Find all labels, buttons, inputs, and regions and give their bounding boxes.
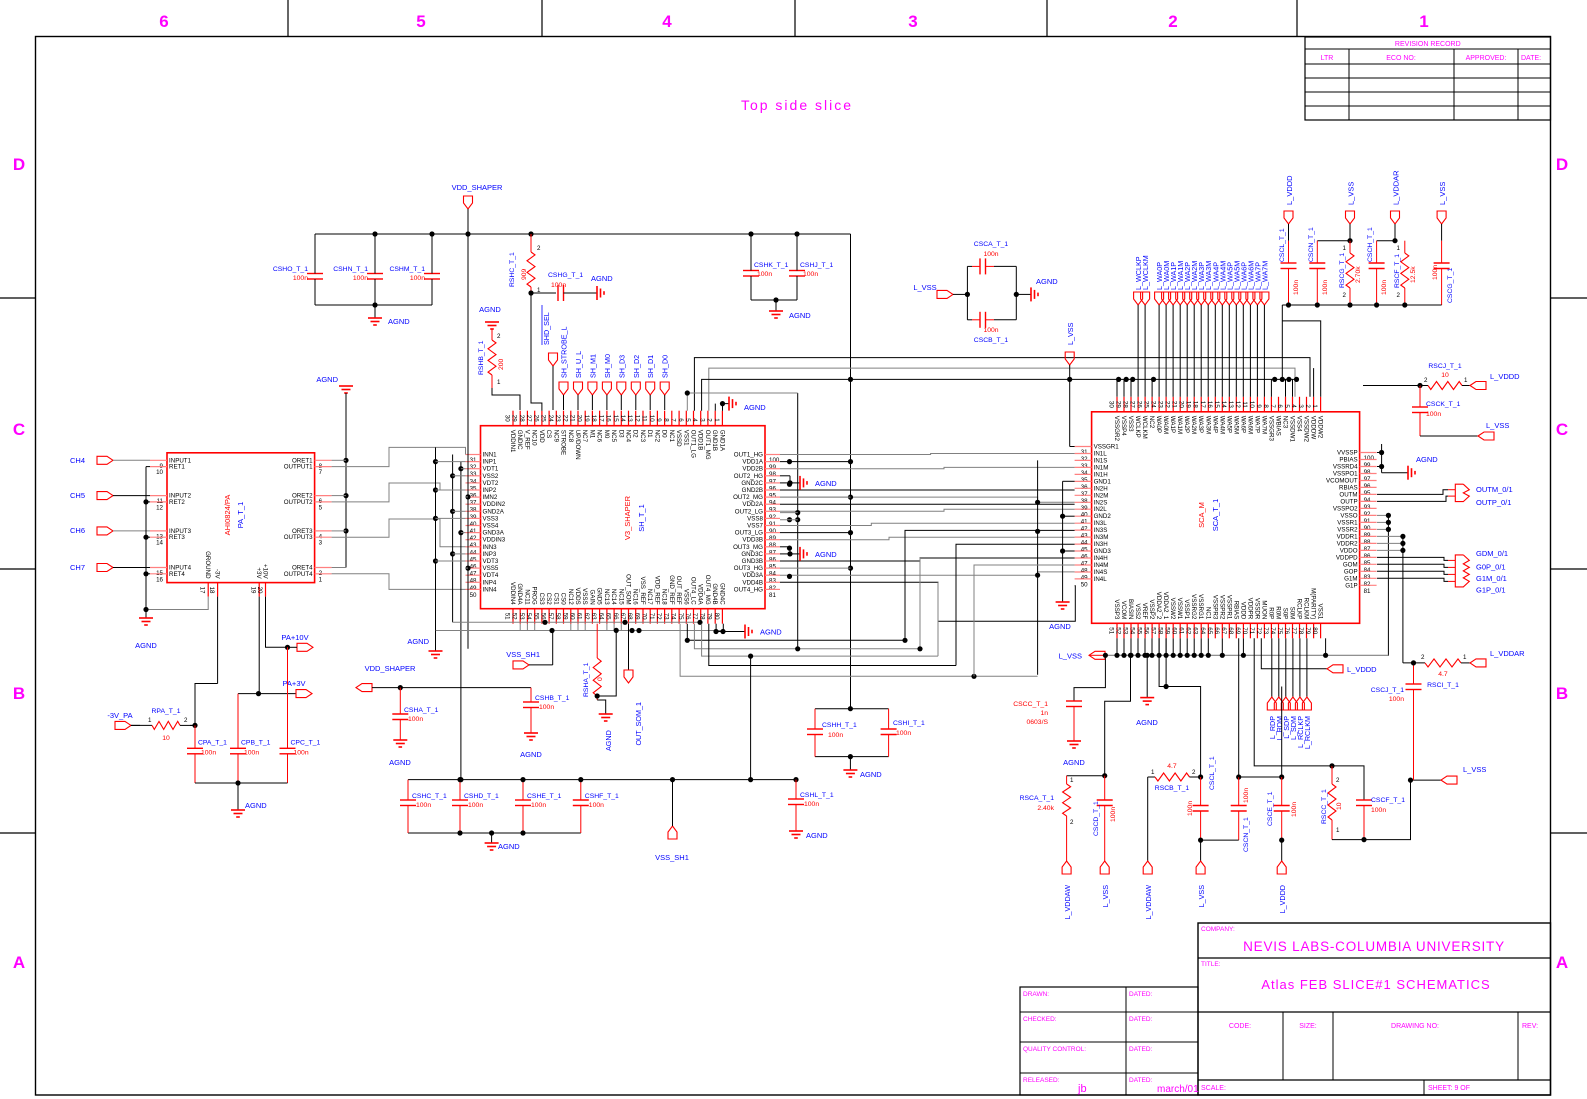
svg-text:CSHH_T_1: CSHH_T_1 bbox=[822, 722, 857, 729]
svg-text:SH_D3: SH_D3 bbox=[617, 355, 626, 378]
svg-text:26: 26 bbox=[532, 415, 539, 422]
wire ORET2 bbox=[332, 495, 346, 497]
svg-text:80: 80 bbox=[713, 613, 720, 620]
svg-text:OUTP: OUTP bbox=[1340, 498, 1357, 505]
svg-text:CSCF_T_1: CSCF_T_1 bbox=[1371, 797, 1405, 804]
svg-text:93: 93 bbox=[1364, 504, 1371, 511]
svg-text:NC1: NC1 bbox=[668, 430, 675, 443]
pin 47 VSS5 bbox=[466, 567, 481, 569]
svg-text:26: 26 bbox=[1136, 401, 1143, 408]
svg-text:VDD1A: VDD1A bbox=[742, 459, 764, 466]
pin 94 OUT2_MG bbox=[765, 496, 780, 498]
node junctions on top rail bbox=[372, 231, 377, 236]
svg-text:3: 3 bbox=[1297, 404, 1304, 408]
svg-text:100n: 100n bbox=[410, 275, 425, 282]
svg-text:94: 94 bbox=[769, 500, 776, 507]
wire pins 30 29 28 risers bbox=[1116, 379, 1118, 396]
svg-text:31: 31 bbox=[470, 457, 477, 464]
svg-text:REVISION RECORD: REVISION RECORD bbox=[1395, 41, 1461, 48]
svg-text:SHD_SEL: SHD_SEL bbox=[542, 312, 551, 345]
svg-text:NC9: NC9 bbox=[552, 430, 559, 443]
svg-text:85: 85 bbox=[769, 564, 776, 571]
pin 100 OUT1_HG bbox=[765, 454, 780, 456]
svg-text:GOP: GOP bbox=[1344, 568, 1358, 575]
pin 19 M1 bbox=[591, 411, 593, 426]
wire bus risers from below bbox=[905, 530, 1075, 640]
svg-text:L_VSS: L_VSS bbox=[1347, 182, 1356, 205]
svg-text:78: 78 bbox=[1297, 627, 1304, 634]
svg-text:100n: 100n bbox=[201, 750, 216, 757]
svg-text:SH_D2: SH_D2 bbox=[632, 355, 641, 378]
ground AGND shaper top right bbox=[723, 404, 730, 411]
svg-text:VSS5: VSS5 bbox=[483, 565, 499, 572]
pin 34 VSS2 bbox=[466, 475, 481, 477]
wire cap bottom rail bbox=[195, 782, 288, 784]
pin 44 IN3M bbox=[1075, 536, 1092, 538]
pin 16 NC5 bbox=[613, 411, 615, 426]
svg-text:Atlas FEB SLICE#1 SCHEMATICS: Atlas FEB SLICE#1 SCHEMATICS bbox=[1261, 977, 1490, 992]
resistor RSHB_T_1 200 bbox=[491, 329, 493, 340]
ground AGND PA bbox=[145, 610, 147, 619]
svg-text:jb: jb bbox=[1077, 1083, 1087, 1095]
svg-text:VSS8: VSS8 bbox=[747, 515, 763, 522]
svg-text:100n: 100n bbox=[1291, 802, 1298, 817]
wire shaper bottom rails bbox=[436, 630, 724, 632]
pin 31 INN1 bbox=[466, 454, 481, 456]
svg-text:2: 2 bbox=[1397, 292, 1401, 299]
svg-text:89: 89 bbox=[1364, 532, 1371, 539]
pin 25 NC2 bbox=[1151, 397, 1153, 412]
pin 1 OUTPUT4 bbox=[315, 573, 332, 575]
svg-text:VREF: VREF bbox=[1141, 603, 1148, 620]
resistor RSCC_T_1 10 bbox=[1331, 766, 1333, 784]
pin 29 GNDIC bbox=[519, 411, 521, 426]
svg-text:1: 1 bbox=[1464, 377, 1468, 384]
pin 94 OUTM bbox=[1360, 493, 1377, 495]
svg-text:-3V_PA: -3V_PA bbox=[107, 711, 132, 720]
svg-text:GND5: GND5 bbox=[596, 587, 603, 605]
svg-text:100n: 100n bbox=[1293, 280, 1300, 295]
wire input pin stubs to verticals bbox=[436, 461, 466, 463]
port L_VSS 1 bbox=[1100, 861, 1109, 874]
port L_VSS right lower bbox=[1411, 779, 1442, 781]
svg-text:3: 3 bbox=[319, 540, 323, 547]
svg-text:IN3S: IN3S bbox=[1094, 527, 1108, 534]
pin 37 IMN2 bbox=[466, 496, 481, 498]
svg-text:NC4: NC4 bbox=[625, 430, 632, 443]
wire pin20 +10V bbox=[266, 597, 288, 648]
svg-text:CPB_T_1: CPB_T_1 bbox=[241, 740, 271, 747]
pin 46 GND3 bbox=[1075, 550, 1092, 552]
pin 10 RET1 bbox=[150, 466, 167, 468]
pin 55 VREF bbox=[1144, 623, 1146, 638]
svg-text:GNDIC: GNDIC bbox=[516, 430, 523, 450]
wire cap bottom rail bbox=[315, 304, 432, 306]
pin 11 INPUT2 bbox=[150, 495, 167, 497]
wire bus 82 bbox=[780, 582, 1075, 621]
svg-text:RSCJ_T_1: RSCJ_T_1 bbox=[1428, 363, 1461, 370]
pin 71 VSSDR bbox=[1256, 623, 1258, 638]
wire RET stubs bbox=[146, 466, 150, 468]
pin 86 VDDO bbox=[1360, 549, 1377, 551]
svg-text:VDD3A: VDD3A bbox=[742, 572, 764, 579]
svg-text:VDDR2: VDDR2 bbox=[1337, 540, 1359, 547]
capacitor CSCF_T_1 bbox=[1332, 766, 1364, 800]
svg-text:SH_D1: SH_D1 bbox=[646, 355, 655, 378]
svg-text:AGND: AGND bbox=[388, 317, 410, 326]
pin 28 V_REF bbox=[526, 411, 528, 426]
svg-text:RSCF_T_1: RSCF_T_1 bbox=[1394, 254, 1401, 288]
svg-text:97: 97 bbox=[1364, 476, 1371, 483]
pin 73 R0P bbox=[1270, 623, 1272, 638]
port VSS_SH1 lower bbox=[668, 826, 677, 839]
svg-text:GND1A: GND1A bbox=[718, 430, 725, 452]
pin 10 NC2 bbox=[656, 411, 658, 426]
pin 88 VDDR1 bbox=[1360, 535, 1377, 537]
svg-text:100n: 100n bbox=[1243, 788, 1250, 803]
svg-text:100n: 100n bbox=[1322, 280, 1329, 295]
ground AGND RSHA bbox=[597, 700, 606, 714]
capacitor CSCJ_T_1 bbox=[1413, 663, 1415, 684]
svg-text:61: 61 bbox=[576, 613, 583, 620]
wire OUTPUT1 to INN1 bbox=[332, 447, 466, 466]
wire bus 94 bbox=[780, 497, 1075, 502]
svg-text:PBIAS: PBIAS bbox=[1339, 457, 1357, 464]
wire bus 92b bbox=[780, 509, 1075, 511]
svg-text:AGND: AGND bbox=[245, 801, 267, 810]
ground AGND CSHG bbox=[596, 286, 598, 300]
svg-text:VSSGR3: VSSGR3 bbox=[1267, 416, 1274, 442]
svg-text:84: 84 bbox=[769, 571, 776, 578]
pin 15 INPUT4 bbox=[150, 567, 167, 569]
resistor RSHC_T_1 909 bbox=[527, 252, 535, 287]
svg-text:OUT1_HG: OUT1_HG bbox=[734, 452, 763, 459]
capacitor row CSHC CSHD CSHE CSHF bbox=[408, 779, 796, 781]
svg-text:79: 79 bbox=[706, 613, 713, 620]
capacitor CSHH_T_1 bbox=[814, 709, 816, 729]
ground AGND CSCC bbox=[1067, 740, 1081, 742]
capacitor CSHO_T_1 bbox=[307, 273, 323, 275]
pin 23 STROBE bbox=[563, 411, 565, 426]
pin 13 WA5M bbox=[1235, 397, 1237, 412]
svg-text:VSSD: VSSD bbox=[675, 430, 682, 447]
svg-text:VDDS: VDDS bbox=[574, 587, 581, 604]
svg-text:73: 73 bbox=[662, 613, 669, 620]
wire G1P bbox=[1377, 578, 1448, 581]
svg-text:52: 52 bbox=[1115, 627, 1122, 634]
wire bus 90 bbox=[780, 523, 1075, 525]
svg-text:16: 16 bbox=[1206, 401, 1213, 408]
svg-text:VSS2: VSS2 bbox=[483, 473, 499, 480]
approvals table bbox=[1020, 987, 1198, 1095]
wire CSHK CSHJ bottom rail bbox=[751, 299, 797, 301]
svg-text:IN2L: IN2L bbox=[1094, 506, 1108, 513]
svg-text:SIZE:: SIZE: bbox=[1299, 1023, 1317, 1030]
svg-text:NC6: NC6 bbox=[596, 430, 603, 443]
svg-text:55: 55 bbox=[1136, 627, 1143, 634]
svg-text:46: 46 bbox=[470, 564, 477, 571]
pin 50 IN4L bbox=[1075, 578, 1092, 580]
pin 82 G1M bbox=[1360, 577, 1377, 579]
capacitor CSCL_T_1 top bbox=[1288, 241, 1290, 263]
svg-text:2.70k: 2.70k bbox=[1355, 266, 1362, 283]
svg-text:100n: 100n bbox=[1371, 807, 1386, 814]
svg-text:2: 2 bbox=[1343, 292, 1347, 299]
svg-text:54: 54 bbox=[1129, 627, 1136, 634]
svg-text:CODE:: CODE: bbox=[1229, 1023, 1251, 1030]
pin 92 VSSPO2 bbox=[1360, 507, 1377, 509]
revision record table bbox=[1305, 37, 1551, 120]
resistor RSCJ_T_1 10 bbox=[1417, 383, 1422, 388]
svg-text:33: 33 bbox=[470, 471, 477, 478]
svg-text:14: 14 bbox=[1220, 401, 1227, 408]
svg-text:SH_U_L: SH_U_L bbox=[574, 351, 583, 378]
svg-text:75: 75 bbox=[1276, 627, 1283, 634]
pin 20 WA2P bbox=[1186, 397, 1188, 412]
svg-text:RSHB_T_1: RSHB_T_1 bbox=[478, 340, 485, 375]
svg-text:WA1P: WA1P bbox=[1169, 416, 1176, 433]
pin 81 G1P bbox=[1360, 584, 1377, 586]
svg-text:L_VDDD: L_VDDD bbox=[1490, 372, 1520, 381]
svg-text:68: 68 bbox=[1227, 627, 1234, 634]
svg-text:SH_M0: SH_M0 bbox=[603, 354, 612, 378]
svg-text:RCLKM: RCLKM bbox=[1303, 598, 1310, 620]
pin 18 -3V bbox=[217, 583, 219, 597]
svg-text:VDT4: VDT4 bbox=[483, 572, 499, 579]
svg-text:COMPANY:: COMPANY: bbox=[1201, 926, 1235, 933]
pin 82 VDD4B bbox=[765, 581, 780, 583]
pin 87 VDDR2 bbox=[1360, 542, 1377, 544]
pin 97 OUT2_HG bbox=[765, 475, 780, 477]
svg-text:L_VDDAR: L_VDDAR bbox=[1490, 649, 1525, 658]
capacitor CSCA_T_1 CSCB_T_1 pair bbox=[966, 266, 968, 319]
svg-text:INN4: INN4 bbox=[483, 586, 498, 593]
wire bus 95 bbox=[780, 489, 1075, 491]
pin 54 PROG bbox=[534, 609, 536, 624]
capacitor CSHH_T_1 CSHI_T_1 box bbox=[815, 708, 889, 710]
svg-text:100n: 100n bbox=[293, 275, 308, 282]
svg-text:V_REF: V_REF bbox=[523, 430, 530, 450]
output port GDM G0P G1M G1P connector bbox=[1455, 555, 1469, 587]
svg-text:100n: 100n bbox=[353, 275, 368, 282]
svg-text:1: 1 bbox=[1070, 777, 1074, 784]
wire bus 98 bbox=[780, 467, 1075, 468]
pin 95 GND2B bbox=[765, 489, 780, 491]
pin 9 INPUT1 bbox=[150, 459, 167, 461]
pin 6 ORET2 bbox=[315, 495, 332, 497]
svg-text:WA5P: WA5P bbox=[1225, 416, 1232, 433]
wire L_VSS bottom rail bbox=[1105, 654, 1388, 656]
ground AGND caps bbox=[237, 782, 239, 810]
pin 16 RET4 bbox=[150, 573, 167, 575]
svg-text:CSCH_T_1: CSCH_T_1 bbox=[1367, 227, 1374, 262]
svg-text:RCLKP: RCLKP bbox=[1296, 599, 1303, 620]
port L_VDDAW 1 bbox=[1062, 861, 1071, 874]
svg-text:D: D bbox=[13, 155, 25, 174]
svg-text:M0: M0 bbox=[603, 430, 610, 439]
svg-text:NC17: NC17 bbox=[646, 589, 653, 605]
svg-text:2: 2 bbox=[497, 333, 501, 340]
svg-text:VDDIN1: VDDIN1 bbox=[509, 430, 516, 453]
svg-text:VDDIN4: VDDIN4 bbox=[509, 582, 516, 605]
svg-text:L_VSS: L_VSS bbox=[1197, 885, 1206, 908]
svg-text:SCA_T_1: SCA_T_1 bbox=[1211, 499, 1220, 532]
port L_VSS 2 bbox=[1200, 840, 1202, 861]
svg-text:100n: 100n bbox=[803, 271, 818, 278]
pin 52 VCOM bbox=[1123, 623, 1125, 638]
svg-text:VSSP3: VSSP3 bbox=[1113, 599, 1120, 620]
svg-text:VDD4A: VDD4A bbox=[697, 584, 704, 606]
pin 52 GND4A bbox=[519, 609, 521, 624]
pin 18 NC6 bbox=[599, 411, 601, 426]
pin 100 VVSSP bbox=[1360, 452, 1377, 454]
svg-text:VSSPR2: VSSPR2 bbox=[1218, 595, 1225, 620]
svg-text:36: 36 bbox=[470, 493, 477, 500]
svg-text:INP4: INP4 bbox=[483, 579, 497, 586]
pin 41 VSS4 bbox=[466, 525, 481, 527]
svg-text:RSCG_T_1: RSCG_T_1 bbox=[1339, 253, 1346, 288]
svg-text:INN3: INN3 bbox=[483, 544, 498, 551]
power flag L_VDDD under SCA bbox=[1261, 638, 1327, 669]
svg-text:VSSPR1: VSSPR1 bbox=[1225, 595, 1232, 620]
wire RSCC CSCF bottom bbox=[1332, 780, 1411, 840]
pin 77 VDD4A bbox=[700, 609, 702, 624]
capacitor CPC_T_1 bbox=[287, 647, 289, 748]
svg-text:IN4L: IN4L bbox=[1094, 576, 1108, 583]
svg-text:99: 99 bbox=[1364, 462, 1371, 469]
pin 27 NC10 bbox=[534, 411, 536, 426]
capacitor CSCE_T_1 bbox=[1239, 776, 1282, 778]
svg-text:IN4H: IN4H bbox=[1094, 555, 1108, 562]
svg-text:63: 63 bbox=[590, 613, 597, 620]
pin 63 GND5 bbox=[599, 609, 601, 624]
svg-text:14: 14 bbox=[156, 540, 163, 547]
svg-text:69: 69 bbox=[634, 613, 641, 620]
capacitor CSCN_T_1 bottom bbox=[1238, 638, 1240, 777]
svg-text:D: D bbox=[1556, 155, 1568, 174]
svg-text:100n: 100n bbox=[896, 730, 911, 737]
svg-text:CSHM_T_1: CSHM_T_1 bbox=[389, 266, 425, 273]
svg-text:GND2: GND2 bbox=[1094, 513, 1112, 520]
pin 85 VDDPD bbox=[1360, 556, 1377, 558]
svg-text:88: 88 bbox=[1364, 539, 1371, 546]
pin 41 GND2 bbox=[1075, 515, 1092, 517]
svg-text:10: 10 bbox=[162, 735, 170, 742]
capacitor CSHC_T_1 bbox=[407, 780, 409, 800]
pin 13 INPUT3 bbox=[150, 530, 167, 532]
wire rail from pin area to RSCJ bbox=[1363, 385, 1420, 387]
svg-text:CSHN_T_1: CSHN_T_1 bbox=[333, 266, 368, 273]
pin 64 NC1 bbox=[1207, 623, 1209, 638]
svg-text:90: 90 bbox=[769, 528, 776, 535]
svg-text:DATED:: DATED: bbox=[1129, 1077, 1153, 1084]
svg-text:OUT2_HG: OUT2_HG bbox=[734, 473, 763, 480]
svg-text:100n: 100n bbox=[1381, 280, 1388, 295]
capacitor CSCH_T_1 bbox=[1377, 240, 1395, 242]
svg-text:6: 6 bbox=[159, 12, 168, 31]
pin 56 VSSP2 bbox=[1151, 623, 1153, 638]
pin 36 INP2 bbox=[466, 489, 481, 491]
pin 18 WA3P bbox=[1200, 397, 1202, 412]
wire pin94 to vertical bbox=[780, 496, 851, 498]
svg-text:L_VDDD: L_VDDD bbox=[1278, 885, 1287, 913]
svg-text:BIASIN: BIASIN bbox=[1127, 599, 1134, 619]
svg-text:IN1H: IN1H bbox=[1094, 471, 1108, 478]
svg-text:40: 40 bbox=[470, 521, 477, 528]
pin 9 WA7M bbox=[1263, 397, 1265, 412]
capacitor CSCA_T_1 bbox=[967, 265, 972, 267]
pin 6 VSS1 bbox=[685, 411, 687, 426]
svg-text:1: 1 bbox=[1397, 245, 1401, 252]
svg-text:CSHK_T_1: CSHK_T_1 bbox=[754, 262, 789, 269]
pin 42 GND3A bbox=[466, 532, 481, 534]
ground AGND CSHH box bbox=[849, 757, 851, 770]
capacitor CSHN_T_1 bbox=[367, 273, 383, 275]
pin 44 INN3 bbox=[466, 546, 481, 548]
pin 26 WCLKM bbox=[1144, 397, 1146, 412]
pin 8 NC1 bbox=[671, 411, 673, 426]
svg-text:INP1: INP1 bbox=[483, 459, 497, 466]
svg-text:GND3C: GND3C bbox=[741, 551, 763, 558]
svg-text:OUTPUT1: OUTPUT1 bbox=[284, 464, 313, 471]
svg-text:7: 7 bbox=[670, 418, 677, 422]
node dots shaper right pins bbox=[787, 459, 792, 464]
wire bottom pin stubs drop bbox=[519, 624, 521, 631]
pin 6 NC3 bbox=[1285, 397, 1287, 412]
svg-text:11: 11 bbox=[641, 415, 648, 422]
svg-text:8: 8 bbox=[1262, 404, 1269, 408]
pin 49 INP4 bbox=[466, 581, 481, 583]
svg-text:70: 70 bbox=[1241, 627, 1248, 634]
svg-text:44: 44 bbox=[1081, 540, 1088, 547]
svg-text:DRAWN:: DRAWN: bbox=[1023, 991, 1049, 998]
svg-text:CS1: CS1 bbox=[552, 593, 559, 606]
svg-text:100n: 100n bbox=[416, 802, 431, 809]
svg-text:WA5M: WA5M bbox=[1232, 416, 1239, 434]
svg-text:100n: 100n bbox=[531, 802, 546, 809]
svg-text:CSHE_T_1: CSHE_T_1 bbox=[527, 793, 562, 800]
svg-text:10: 10 bbox=[156, 469, 163, 476]
pin 19 +3V bbox=[258, 583, 260, 597]
svg-text:RSCB_T_1: RSCB_T_1 bbox=[1155, 785, 1190, 792]
svg-text:18: 18 bbox=[590, 415, 597, 422]
svg-text:7: 7 bbox=[319, 469, 323, 476]
pin 32 IN1L bbox=[1075, 453, 1092, 455]
pin 92 OUT2_LG bbox=[765, 510, 780, 512]
capacitor CSCK_T_1 bbox=[1419, 386, 1421, 408]
pin 2 ORET4 bbox=[315, 567, 332, 569]
wire pin89 to vertical bbox=[780, 532, 851, 534]
wire L_VSS rail y=379.4 bbox=[702, 379, 1297, 410]
svg-text:2: 2 bbox=[706, 418, 713, 422]
wire ORET1 bbox=[332, 459, 346, 461]
svg-text:6: 6 bbox=[1276, 404, 1283, 408]
svg-text:AHI0824/PA: AHI0824/PA bbox=[223, 495, 232, 536]
svg-text:CS: CS bbox=[545, 430, 552, 439]
svg-text:12: 12 bbox=[634, 415, 641, 422]
pin 30 VDDIN1 bbox=[512, 411, 514, 426]
svg-text:1: 1 bbox=[497, 379, 501, 386]
pin 98 VDD2B bbox=[765, 468, 780, 470]
svg-text:VSSRD4: VSSRD4 bbox=[1333, 464, 1358, 471]
svg-text:1n: 1n bbox=[1040, 710, 1048, 717]
svg-text:AGND: AGND bbox=[135, 641, 157, 650]
svg-text:VDT1: VDT1 bbox=[483, 466, 499, 473]
svg-text:2: 2 bbox=[1336, 777, 1340, 784]
svg-text:22: 22 bbox=[1164, 401, 1171, 408]
ground AGND under SCA bbox=[1146, 655, 1148, 697]
wire pin99 to vertical bbox=[780, 461, 851, 463]
